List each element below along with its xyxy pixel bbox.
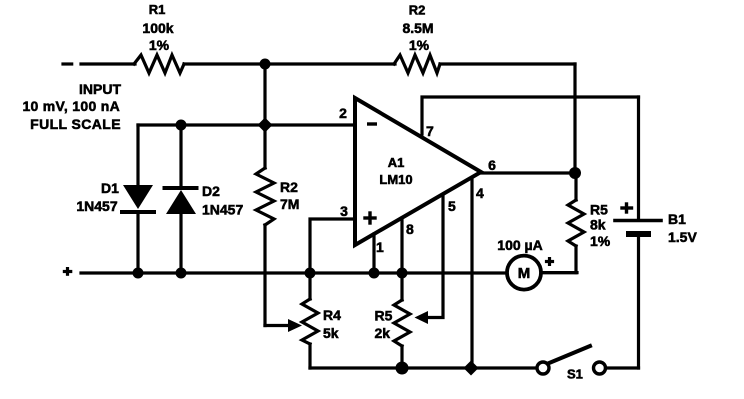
label R1 value [142, 2, 173, 53]
svg-text:INPUT: INPUT [79, 81, 121, 97]
svg-text:R2: R2 [409, 3, 426, 18]
wire pin 6 output [481, 171, 575, 174]
node D2 top [176, 120, 187, 131]
svg-text:FULL SCALE: FULL SCALE [30, 116, 121, 132]
label R5 8k [590, 202, 611, 250]
wire junction to inverting rail [263, 64, 266, 125]
pin 6 label [488, 157, 496, 173]
switch S1 [537, 346, 639, 374]
svg-text:LM10: LM10 [379, 172, 412, 187]
resistor R5 8k [541, 173, 584, 273]
pin 4 label [476, 185, 484, 201]
svg-text:3: 3 [340, 203, 348, 219]
wire pin 4 lead [470, 178, 473, 368]
label D1 [76, 180, 119, 214]
label 100 uA [497, 237, 542, 282]
svg-text:R5: R5 [375, 308, 393, 324]
svg-text:8.5M: 8.5M [402, 20, 433, 36]
label R2 7M [280, 179, 299, 212]
node R5 2k bottom [396, 362, 409, 375]
label R2 8.5M value [402, 3, 433, 54]
wire top-left segment [81, 62, 135, 65]
svg-text:1N457: 1N457 [76, 198, 117, 214]
meter plus sign [547, 259, 553, 265]
svg-text:2k: 2k [375, 325, 391, 341]
resistor R2 8.5M [394, 55, 440, 73]
svg-text:M: M [518, 265, 531, 282]
svg-text:1%: 1% [590, 233, 611, 249]
svg-text:D1: D1 [101, 180, 119, 196]
wire pin 5 lead [427, 195, 443, 318]
op-amp plus input sign [365, 213, 375, 223]
label D2 [202, 183, 243, 218]
pin 5 label [448, 198, 456, 214]
wire noninverting bottom rail [81, 271, 506, 274]
svg-text:5k: 5k [323, 325, 339, 341]
svg-text:1%: 1% [409, 37, 430, 53]
svg-text:10 mV, 100 nA: 10 mV, 100 nA [22, 98, 120, 114]
pin 7 label [426, 123, 434, 139]
svg-text:2: 2 [339, 105, 347, 121]
diode D1 [122, 125, 154, 273]
node pin1 bottom [369, 268, 380, 279]
wire top middle segment [184, 62, 395, 65]
svg-text:A1: A1 [388, 155, 405, 170]
svg-text:1.5V: 1.5V [668, 229, 697, 245]
wire pin 3 lead [310, 219, 355, 273]
node pin 4 bottom [464, 361, 479, 376]
svg-text:6: 6 [488, 157, 496, 173]
wire top right segment [440, 62, 575, 65]
resistor R2 7M [256, 125, 302, 332]
op-amp minus input sign [369, 122, 376, 125]
battery plus sign [622, 204, 632, 212]
label S1 [567, 367, 583, 382]
node R1/R2 junction [260, 59, 271, 70]
svg-text:R1: R1 [149, 2, 166, 17]
svg-text:7: 7 [426, 123, 434, 139]
wire bottom rail [310, 366, 537, 369]
wire pin 1 lead [372, 234, 375, 273]
svg-text:7M: 7M [280, 196, 299, 212]
battery B1 [615, 221, 661, 369]
label B1 [668, 211, 697, 245]
node R4 top [305, 268, 316, 279]
node output junction [569, 167, 581, 179]
label A1 LM10 [379, 155, 412, 187]
wire supply from pin 7 to battery [637, 97, 640, 219]
label INPUT [22, 81, 121, 132]
pin 8 label [406, 221, 414, 237]
svg-text:R4: R4 [323, 307, 341, 323]
op-amp A1 [355, 98, 481, 245]
plus terminal label [64, 269, 70, 275]
pin 3 label [340, 203, 348, 219]
svg-text:100k: 100k [142, 20, 173, 36]
pin 5 arrow to R5 wiper [415, 311, 429, 324]
minus terminal label [63, 62, 72, 65]
svg-text:1N457: 1N457 [202, 202, 243, 218]
resistor R1 [134, 55, 184, 73]
wire right vertical to output node [573, 64, 576, 173]
svg-text:8k: 8k [590, 217, 606, 233]
svg-text:B1: B1 [668, 211, 686, 227]
pin 1 label [376, 239, 384, 255]
node R2 7M top junction [258, 118, 273, 133]
diode D2 [165, 125, 197, 273]
svg-text:5: 5 [448, 198, 456, 214]
node D1 bottom [133, 268, 144, 279]
pin 2 label [339, 105, 347, 121]
resistor R5 2k potentiometer [394, 273, 410, 368]
svg-text:1: 1 [376, 239, 384, 255]
wire pin 8 lead [400, 218, 403, 273]
node pin8 / R5 2k top [397, 268, 408, 279]
label R5 2k [375, 308, 393, 342]
svg-text:1%: 1% [149, 37, 170, 53]
meter M1 100uA [507, 256, 577, 290]
resistor R4 potentiometer [302, 273, 318, 368]
svg-text:R5: R5 [590, 202, 608, 218]
svg-text:4: 4 [476, 185, 484, 201]
svg-text:D2: D2 [202, 183, 220, 199]
node D2 bottom [176, 268, 187, 279]
svg-text:8: 8 [406, 221, 414, 237]
wire pin 7 lead [422, 97, 639, 134]
svg-text:R2: R2 [280, 179, 298, 195]
label R4 [323, 307, 341, 341]
svg-text:S1: S1 [567, 367, 583, 382]
svg-text:100 µA: 100 µA [497, 237, 542, 253]
wire inverting input rail [138, 123, 355, 126]
